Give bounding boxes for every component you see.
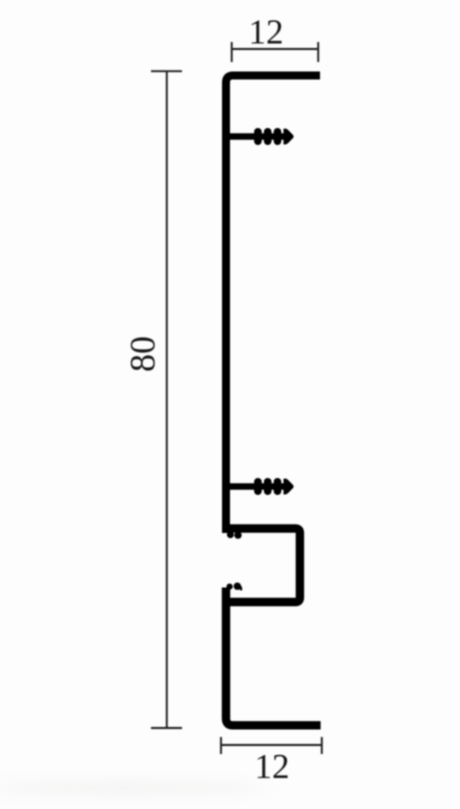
bottom dimension line [221,744,322,746]
profile: top flange + upper left wall [226,76,320,534]
svg-text:12: 12 [255,747,290,786]
left dimension tick top [151,70,182,72]
lower wall top teeth [227,584,233,590]
top dimension tick left [231,42,233,62]
barb B2 serration [254,478,294,495]
left dimension line [166,71,168,728]
lower wall tooth curl tail [238,585,241,590]
top dimension tick right [317,42,319,62]
barb B1 serration [254,128,294,145]
barb B1 stem [230,133,285,140]
channel (top bar, right wall, bottom bar) [225,529,300,603]
bottom-left paper shadow smudge [0,780,270,796]
left dimension tick bottom [151,727,182,729]
top dimension line [232,48,318,50]
bottom dimension tick right [321,737,323,754]
svg-text:80: 80 [123,336,163,372]
barb B2 stem [230,483,285,490]
profile: lower left wall + bottom flange [226,588,321,726]
upper wall bottom teeth [227,531,234,538]
svg-text:12: 12 [249,13,284,52]
bottom dimension tick left [220,737,222,754]
